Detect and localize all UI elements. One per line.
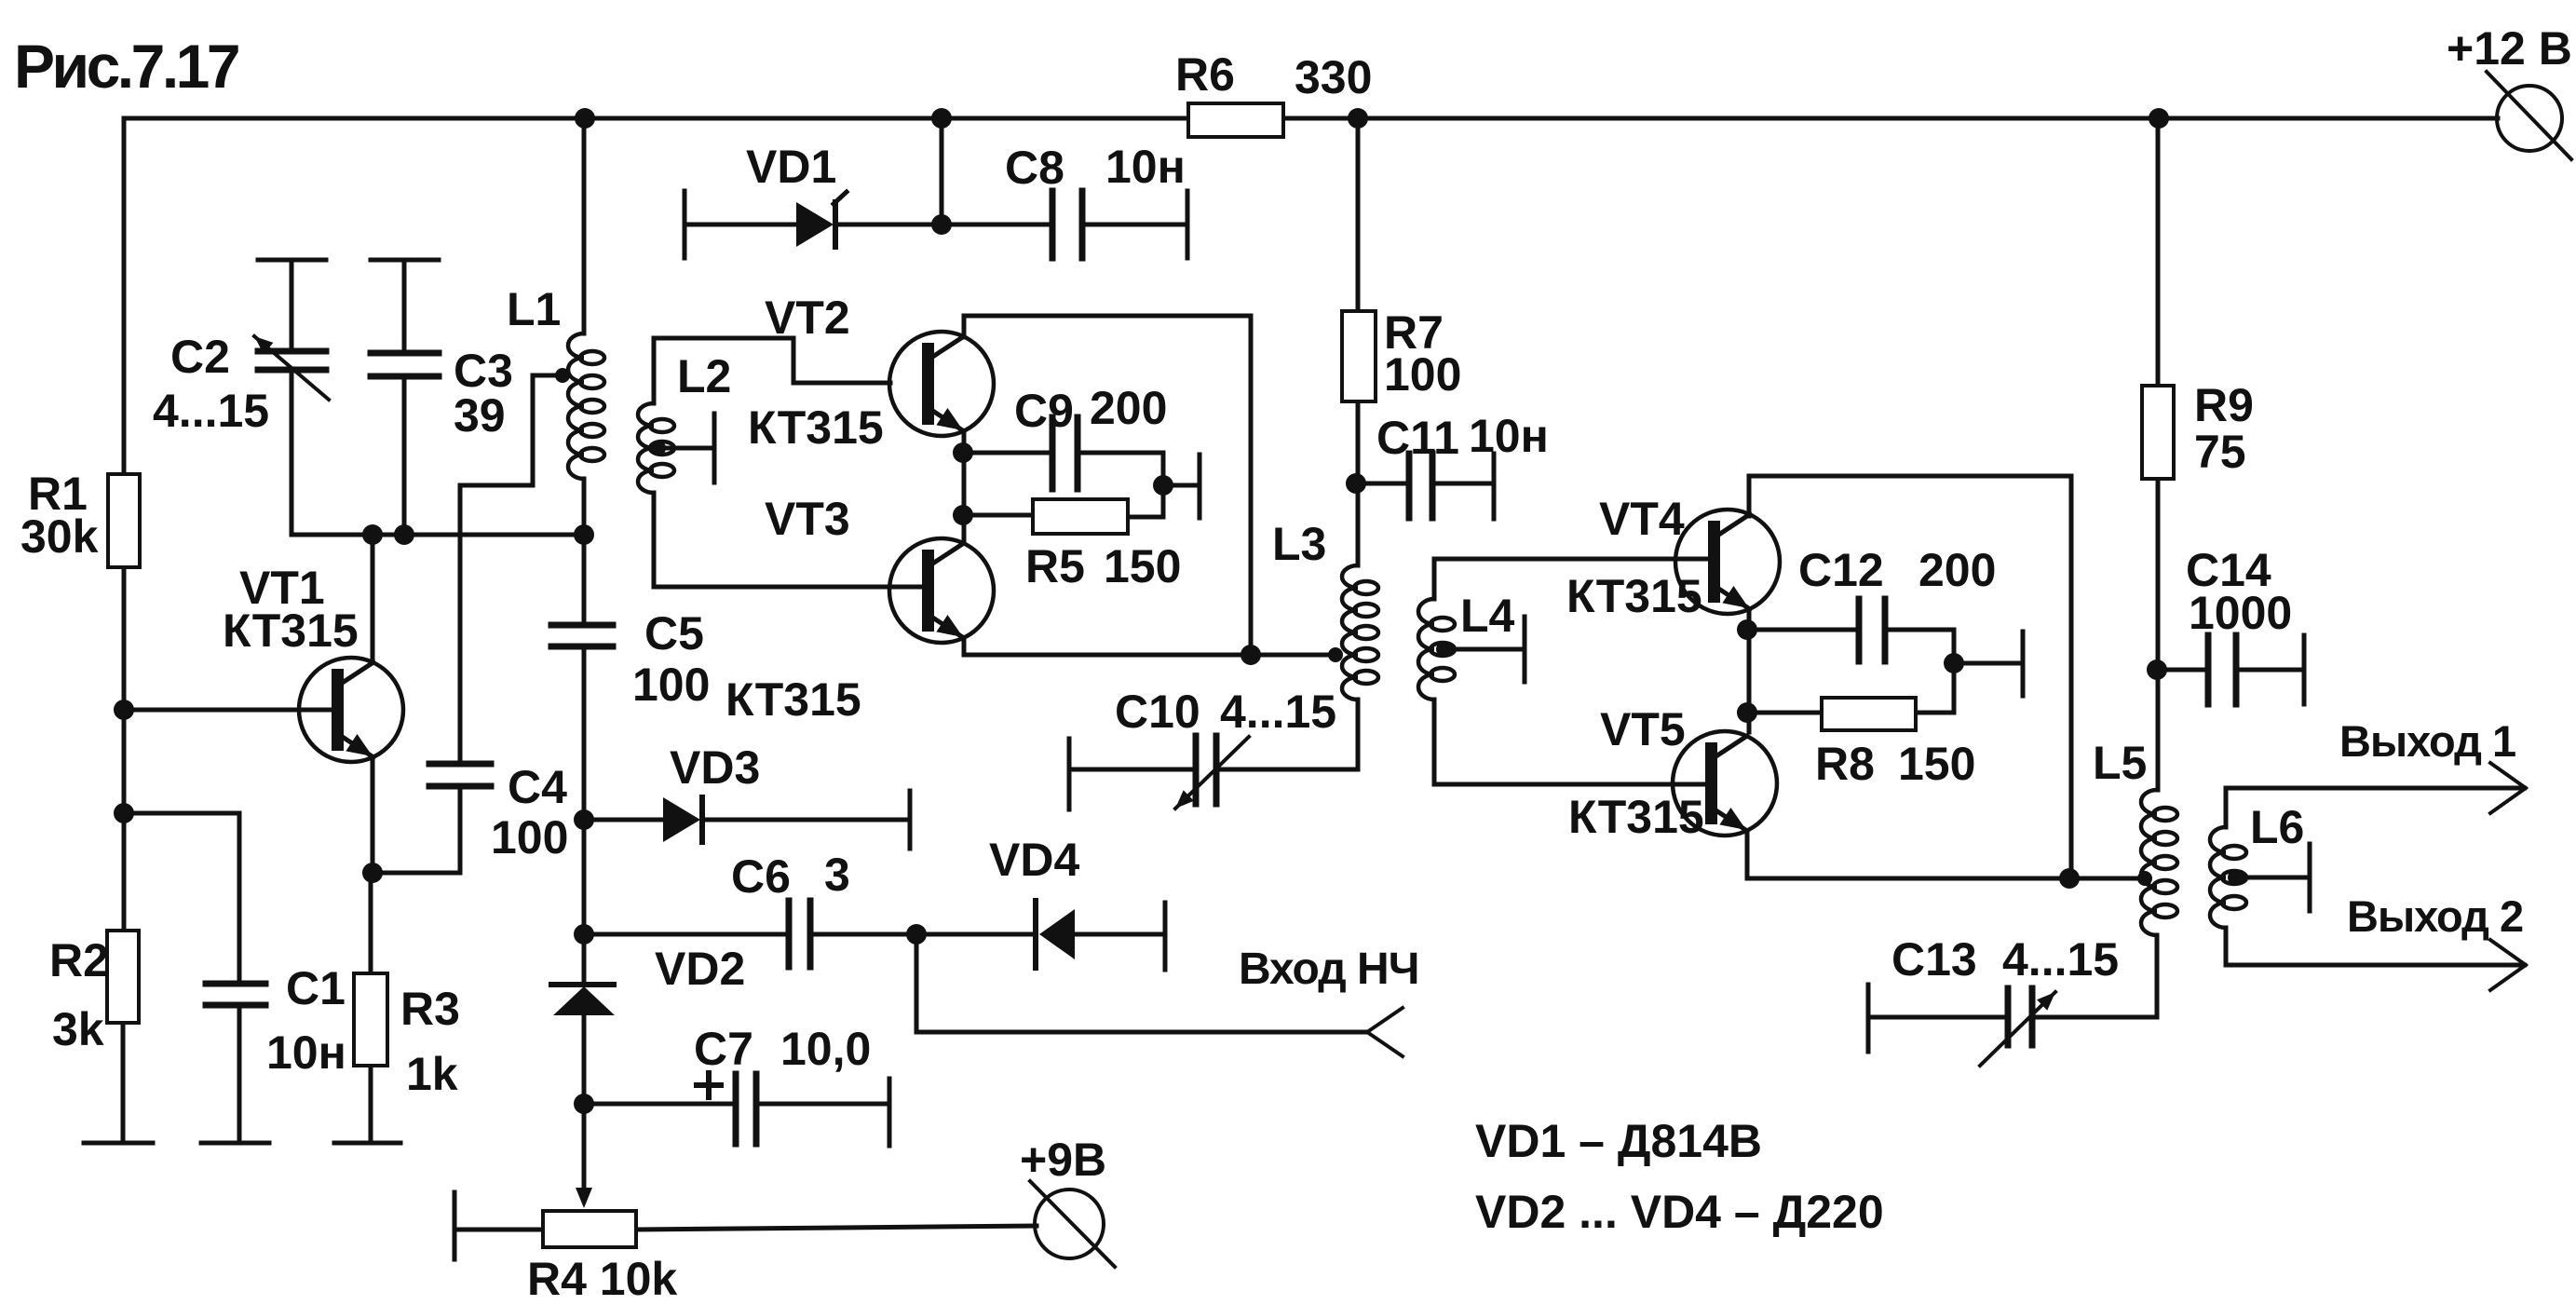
svg-text:3: 3 (824, 849, 850, 901)
svg-text:4...15: 4...15 (2002, 933, 2119, 986)
svg-text:C2: C2 (170, 331, 230, 383)
svg-text:Выход 1: Выход 1 (2339, 716, 2515, 766)
svg-text:C4: C4 (508, 761, 567, 813)
svg-text:100: 100 (632, 659, 710, 711)
svg-text:+9В: +9В (1020, 1134, 1106, 1186)
svg-text:200: 200 (1918, 544, 1996, 596)
svg-text:150: 150 (1104, 540, 1181, 592)
svg-text:VT3: VT3 (765, 493, 850, 545)
svg-text:C5: C5 (644, 607, 704, 659)
svg-text:R9: R9 (2194, 379, 2254, 431)
svg-text:R4 10k: R4 10k (527, 1253, 677, 1300)
svg-text:R5: R5 (1025, 540, 1085, 592)
svg-text:10н: 10н (266, 1026, 346, 1079)
svg-text:L5: L5 (2093, 737, 2147, 789)
svg-text:150: 150 (1898, 738, 1975, 790)
svg-text:R3: R3 (400, 983, 460, 1035)
svg-text:C9: C9 (1014, 385, 1074, 437)
svg-text:R8: R8 (1815, 738, 1875, 790)
svg-text:39: 39 (454, 389, 506, 442)
svg-text:C13: C13 (1891, 933, 1977, 986)
svg-text:КТ315: КТ315 (725, 673, 861, 726)
svg-text:100: 100 (1384, 348, 1461, 401)
svg-text:VD2 ... VD4 – Д220: VD2 ... VD4 – Д220 (1475, 1186, 1884, 1238)
svg-text:1k: 1k (406, 1048, 458, 1100)
svg-text:VT4: VT4 (1599, 493, 1685, 545)
svg-text:VT2: VT2 (765, 292, 850, 344)
svg-text:R6: R6 (1175, 48, 1235, 101)
svg-text:КТ315: КТ315 (1566, 570, 1702, 622)
svg-text:C7: C7 (694, 1023, 753, 1075)
svg-text:10,0: 10,0 (780, 1023, 871, 1075)
svg-text:VD1: VD1 (746, 141, 836, 193)
svg-text:VD4: VD4 (989, 834, 1079, 886)
svg-text:L2: L2 (677, 350, 731, 402)
svg-text:200: 200 (1090, 382, 1167, 434)
svg-text:КТ315: КТ315 (748, 401, 884, 454)
svg-text:Вход НЧ: Вход НЧ (1239, 945, 1418, 994)
svg-text:C12: C12 (1798, 544, 1884, 596)
svg-text:100: 100 (491, 811, 568, 863)
svg-text:10н: 10н (1105, 141, 1186, 193)
svg-text:C10: C10 (1115, 686, 1200, 738)
svg-text:L6: L6 (2250, 801, 2304, 853)
svg-text:C11: C11 (1376, 412, 1459, 464)
svg-text:330: 330 (1295, 51, 1372, 103)
svg-text:L3: L3 (1272, 518, 1326, 570)
svg-text:Рис.7.17: Рис.7.17 (14, 32, 238, 101)
svg-text:R2: R2 (49, 934, 109, 986)
svg-text:VT5: VT5 (1600, 703, 1686, 755)
svg-text:VD3: VD3 (670, 741, 760, 794)
svg-text:C6: C6 (731, 850, 791, 903)
svg-text:L1: L1 (507, 283, 561, 335)
svg-text:+12 В: +12 В (2447, 22, 2572, 75)
svg-text:30k: 30k (20, 510, 99, 563)
svg-text:10н: 10н (1469, 410, 1549, 462)
svg-text:C8: C8 (1005, 142, 1064, 194)
svg-text:1000: 1000 (2189, 587, 2292, 639)
svg-text:C1: C1 (286, 962, 346, 1014)
svg-text:VD2: VD2 (655, 943, 745, 995)
svg-text:4...15: 4...15 (153, 385, 269, 437)
svg-text:75: 75 (2194, 426, 2246, 478)
svg-text:КТ315: КТ315 (1568, 791, 1704, 843)
svg-text:Выход 2: Выход 2 (2347, 891, 2523, 941)
svg-text:3k: 3k (52, 1003, 104, 1055)
svg-text:VD1 – Д814В: VD1 – Д814В (1475, 1115, 1762, 1167)
svg-text:КТ315: КТ315 (223, 605, 359, 657)
svg-text:4...15: 4...15 (1220, 686, 1336, 738)
svg-text:L4: L4 (1460, 590, 1515, 642)
